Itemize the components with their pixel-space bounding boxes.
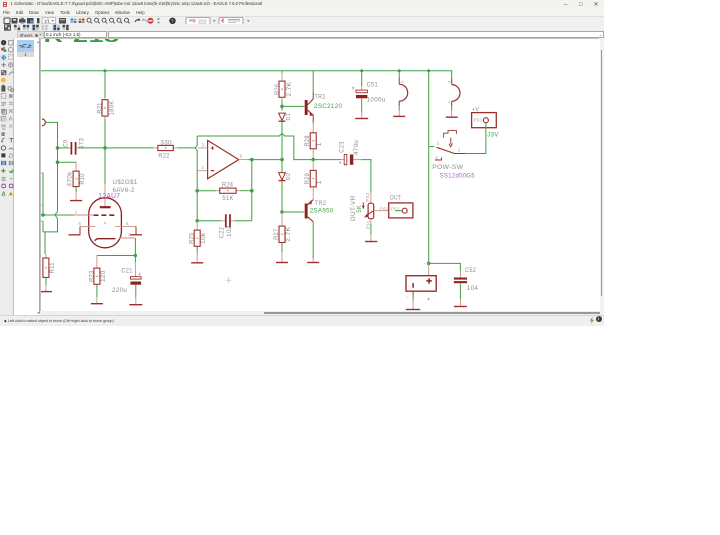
svg-text:J3V: J3V (487, 131, 499, 138)
ground below C51 (355, 118, 368, 120)
svg-text:R23: R23 (88, 270, 95, 282)
svg-text:2: 2 (128, 232, 131, 237)
svg-text:470k: 470k (67, 171, 74, 187)
svg-text:220u: 220u (112, 287, 127, 294)
capacitor C9 473 (56, 137, 154, 154)
wire J3V net (465, 123, 499, 154)
svg-text:1: 1 (75, 210, 78, 215)
ground below L1 (393, 115, 405, 117)
svg-text:102: 102 (226, 225, 233, 237)
ground below R25 (191, 262, 203, 264)
svg-text:R29: R29 (304, 173, 311, 185)
op-amp U1 (198, 140, 249, 178)
svg-text:SS12d00G5: SS12d00G5 (440, 173, 475, 180)
ground below L2 (446, 116, 458, 118)
diode D2 (279, 160, 292, 212)
wire to R11 (41, 219, 58, 255)
svg-text:R22: R22 (158, 153, 170, 160)
svg-text:POW-SW: POW-SW (432, 164, 463, 171)
tube pin 2 cathode lead (104, 222, 135, 238)
svg-text:1: 1 (316, 142, 323, 146)
svg-text:TR1: TR1 (314, 94, 326, 101)
resistor R21 180K (97, 71, 116, 119)
svg-text:1/1: 1/1 (44, 18, 50, 23)
svg-text:1: 1 (437, 141, 440, 146)
svg-text:3: 3 (447, 80, 452, 83)
svg-text:PS1: PS1 (474, 118, 483, 123)
svg-text:120: 120 (100, 270, 107, 282)
wire inverting input chain (195, 136, 199, 223)
ground below OUT-VR (365, 241, 377, 243)
node R28 C23 junction (311, 158, 315, 162)
svg-text:1: 1 (316, 180, 323, 184)
svg-text:⌟: ⌟ (407, 293, 409, 298)
connector OUT jack (380, 194, 413, 218)
svg-text:2.7K: 2.7K (285, 226, 292, 242)
battery B1 (406, 260, 436, 309)
svg-text:C9: C9 (62, 139, 69, 147)
transistor TR2 2SA950 (305, 200, 334, 262)
svg-text:3: 3 (400, 80, 405, 83)
tube plate (100, 206, 111, 208)
svg-text:6: 6 (240, 154, 243, 159)
resistor R11 (43, 254, 56, 291)
svg-text:3: 3 (201, 142, 204, 147)
svg-text:C51: C51 (367, 82, 379, 89)
svg-text:470u: 470u (353, 140, 360, 155)
wire battery feed (427, 71, 460, 272)
wire cathode net (97, 238, 137, 277)
svg-text:3: 3 (435, 156, 438, 161)
svg-text:2: 2 (201, 165, 204, 170)
svg-text:R21: R21 (97, 102, 104, 114)
ground below R23 (91, 303, 103, 305)
capacitor C51 1000u (352, 71, 386, 118)
svg-text:C52: C52 (465, 267, 477, 274)
tube heater pin 6 (115, 221, 142, 235)
ground below C52 (454, 306, 467, 308)
svg-text:4: 4 (447, 100, 452, 103)
wire grid divider branch (56, 148, 76, 212)
tube labels (98, 179, 138, 200)
transistor TR1 2SC2120 (282, 71, 343, 124)
tube U$2 12AU7 outline (89, 198, 122, 248)
svg-text:10k: 10k (200, 232, 207, 244)
svg-text:D2: D2 (286, 173, 292, 181)
svg-text:D1: D1 (286, 113, 292, 121)
resistor R25 10k (189, 221, 208, 262)
svg-text:R25: R25 (189, 232, 196, 244)
ground below R10 (70, 200, 82, 202)
svg-text:R10: R10 (79, 173, 86, 185)
svg-text:R26: R26 (274, 83, 281, 95)
svg-text:PS1: PS1 (391, 206, 400, 211)
resistor R24 51K (197, 182, 252, 203)
svg-text:104: 104 (467, 285, 479, 292)
svg-text:6: 6 (126, 221, 129, 226)
svg-text:473: 473 (79, 137, 86, 149)
input connector stub (42, 119, 58, 148)
svg-text:2.7K: 2.7K (286, 81, 293, 97)
ground below R27 (276, 262, 288, 264)
svg-text:mfg: mfg (189, 18, 196, 22)
canvas origin cross (226, 277, 232, 283)
svg-text:1000u: 1000u (367, 96, 386, 103)
connector PS1 +V jack (472, 107, 497, 128)
resistor R22 330 (154, 139, 195, 159)
svg-text:2: 2 (458, 148, 461, 153)
svg-text:TR2: TR2 (315, 200, 327, 207)
resistor R23 120 (88, 256, 107, 304)
wire grid input with hop (41, 173, 74, 219)
inductor coil L2 (447, 78, 460, 117)
svg-text:R11: R11 (49, 262, 56, 274)
wire op-amp output (248, 158, 284, 221)
tube cathode (95, 239, 116, 241)
svg-text:51K: 51K (222, 195, 234, 202)
svg-text:U$2G$1: U$2G$1 (113, 179, 138, 186)
svg-text:330: 330 (160, 139, 172, 146)
inductor coil L1 (399, 71, 408, 116)
svg-text:C21: C21 (121, 268, 133, 275)
ground below TR2 (307, 262, 319, 264)
svg-text:5: 5 (78, 221, 81, 226)
wire anode feed (103, 119, 107, 207)
svg-text:PS1: PS1 (366, 220, 371, 229)
capacitor C52 104 (454, 267, 479, 306)
capacitor C21 220u (112, 268, 141, 304)
tube heater pin 5 (68, 221, 95, 235)
resistor R10 470k (67, 162, 87, 200)
svg-text:OUT: OUT (390, 194, 401, 201)
svg-text:i: i (3, 40, 4, 45)
svg-text:⌞: ⌞ (424, 260, 426, 265)
resistor R28 (304, 124, 323, 160)
resistor R27 2.7K (273, 212, 292, 262)
ground below R11 (40, 291, 52, 293)
capacitor C22 102 (197, 214, 252, 238)
svg-text:4: 4 (400, 99, 405, 102)
wire feedback top with hop (197, 133, 341, 159)
svg-text:5K: 5K (356, 205, 363, 213)
svg-text:C22: C22 (218, 227, 225, 239)
ground below battery (406, 309, 420, 311)
svg-text:2SA950: 2SA950 (310, 207, 334, 214)
svg-text:PS3: PS3 (365, 192, 370, 201)
svg-text:R27: R27 (273, 228, 280, 240)
ground below C21 (129, 304, 142, 306)
node junction dots on rail (104, 69, 431, 72)
tube grid dashes pin 1 (74, 210, 114, 216)
svg-text:PS2: PS2 (380, 206, 389, 211)
potentiometer OUT-VR 5K (350, 192, 389, 241)
svg-text:R28: R28 (304, 135, 311, 147)
switch POW-SW SS12d00G5 (429, 131, 475, 180)
capacitor C23 470u (338, 140, 371, 193)
svg-text:2SC2120: 2SC2120 (314, 103, 343, 110)
svg-text:C23: C23 (338, 141, 345, 153)
wire V+ top rail (41, 71, 452, 78)
svg-text:R-218: R-218 (44, 39, 120, 46)
diode D1 (279, 105, 292, 160)
svg-text:R24: R24 (222, 182, 234, 189)
resistor R26 2.7K (274, 71, 293, 111)
resistor R29 (304, 160, 323, 200)
svg-text:180K: 180K (109, 100, 116, 116)
svg-text:12AU7: 12AU7 (98, 191, 120, 200)
wire TR2 base (280, 210, 305, 214)
